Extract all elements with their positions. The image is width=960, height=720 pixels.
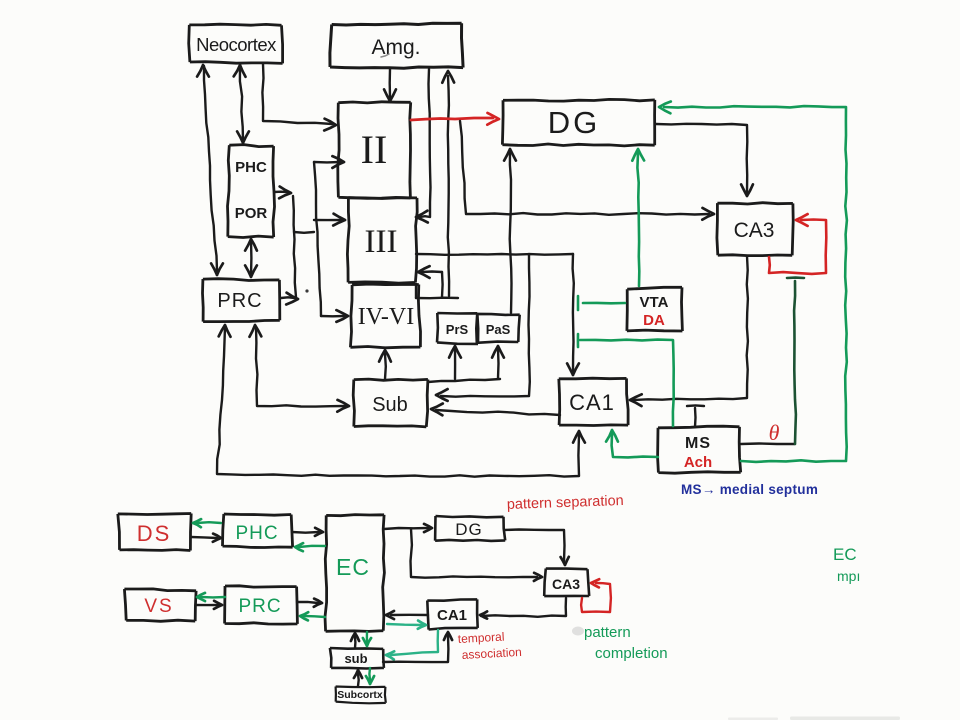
label theta: [769, 420, 780, 445]
svg-text:DG: DG: [455, 520, 483, 539]
label temporal association: [457, 630, 522, 662]
svg-text:III: III: [365, 224, 398, 260]
box EC: [325, 515, 384, 632]
box IV-VI: [350, 284, 420, 348]
wire staircase III-Amg junction: [416, 266, 458, 298]
box MS Ach: [658, 426, 741, 473]
wire POR to column1: [274, 187, 291, 199]
wire EC to CA1 green: [387, 621, 426, 629]
wire column2 to II: [314, 156, 344, 168]
tick near Neocortex: [381, 54, 389, 57]
box DS: [118, 514, 191, 551]
svg-text:EC: EC: [336, 554, 370, 580]
wire PRC to column1: [281, 293, 298, 305]
box PHC POR: [228, 145, 275, 238]
wire Neocortex to II: [262, 64, 336, 131]
wire EC to PHC green: [295, 543, 325, 551]
wire Amg to III: [416, 69, 431, 223]
svg-text:DA: DA: [643, 312, 665, 329]
wire PRC to VS green: [197, 593, 225, 601]
svg-text:POR: POR: [235, 205, 268, 222]
wire y254 to CA1: [567, 254, 579, 375]
svg-text:sub: sub: [344, 651, 367, 666]
wire Neocortex-PHC bidirectional: [234, 65, 249, 143]
svg-text:temporal: temporal: [457, 630, 504, 646]
wire POR-PRC bidirectional: [245, 239, 257, 277]
wire CA1 to Sub green: [386, 630, 438, 660]
svg-text:Amg.: Amg.: [371, 36, 420, 59]
wire EC to CA3 bottom: [411, 529, 543, 581]
wire MS to DG theta green: [659, 102, 847, 462]
svg-text:MS→ medial septum: MS→ medial septum: [681, 482, 818, 497]
svg-text:CA1: CA1: [569, 390, 615, 415]
wire Subcortx to Sub black: [354, 670, 362, 686]
wire VTA inhibit green: [578, 296, 625, 310]
wire DG to CA3 bottom: [504, 530, 569, 566]
box PRC: [203, 279, 280, 322]
svg-text:CA3: CA3: [734, 219, 775, 242]
svg-text:VTA: VTA: [640, 294, 669, 311]
box PRC bottom: [225, 586, 298, 624]
svg-text:IV-VI: IV-VI: [358, 304, 414, 330]
wire Sub to PrS PaS: [428, 346, 504, 382]
wire green to MS: [578, 334, 674, 426]
box VTA DA: [627, 287, 683, 331]
box Neocortex: [189, 24, 283, 63]
wire II to CA3: [460, 121, 714, 220]
wire Sub to IV-VI: [379, 350, 391, 379]
box Sub: [353, 379, 428, 427]
wire MS T-bar black: [687, 405, 704, 427]
svg-text:PRC: PRC: [238, 596, 281, 617]
wire PRC-Sub bidirectional: [250, 325, 350, 412]
svg-text:PrS: PrS: [446, 322, 469, 337]
box PHC bottom: [223, 514, 293, 548]
wire VTA to DG green: [632, 149, 644, 286]
label MS medial septum: [681, 482, 818, 497]
wire DG to CA3: [656, 124, 753, 196]
box III: [347, 198, 417, 283]
wire column2 to III: [314, 214, 345, 226]
wire VS to PRC black: [196, 601, 222, 609]
svg-text:CA1: CA1: [437, 607, 467, 624]
box PaS: [476, 314, 519, 343]
box Sub bottom: [330, 648, 384, 669]
box DG: [502, 99, 654, 145]
wire column2 to IV-VI: [321, 310, 348, 322]
wire PRC-CA1 long loop: [217, 325, 585, 477]
svg-text:EC: EC: [833, 545, 857, 564]
wire CA1 to Sub: [431, 404, 560, 416]
wire column1 vertical: [293, 196, 296, 297]
wire Neocortex-PRC bidirectional: [197, 65, 223, 275]
smudge bottom edge: [728, 717, 900, 720]
svg-text:CA3: CA3: [552, 576, 580, 592]
svg-text:DG: DG: [548, 105, 601, 140]
svg-text:MS: MS: [685, 435, 711, 452]
svg-text:PRC: PRC: [217, 290, 262, 312]
svg-text:pattern: pattern: [584, 624, 631, 641]
wire EC to DG bottom: [384, 524, 432, 532]
wire PHC to EC black: [292, 528, 323, 536]
wire branch to Sub: [436, 254, 530, 401]
label EC imp right: [833, 545, 860, 584]
svg-text:Sub: Sub: [372, 394, 408, 416]
wire MS theta inhibit: [741, 278, 804, 444]
svg-text:Neocortex: Neocortex: [196, 34, 277, 55]
box Subcortx: [336, 687, 386, 704]
svg-text:PHC: PHC: [235, 159, 267, 176]
svg-text:II: II: [361, 127, 388, 172]
wire PHC to DS green: [193, 519, 221, 527]
wire red II to DG: [411, 113, 499, 125]
svg-text:mpı: mpı: [837, 568, 860, 584]
box PrS: [437, 313, 478, 344]
svg-text:VS: VS: [144, 596, 173, 617]
wire column connector: [294, 231, 314, 234]
wire DS to PHC black: [191, 534, 221, 542]
svg-text:completion: completion: [595, 645, 668, 662]
box II: [338, 102, 411, 199]
wire Sub to CA1 black: [383, 632, 452, 662]
wire CA3 red recurrent loop: [769, 214, 826, 274]
wire Amg to II: [384, 69, 396, 101]
label pattern completion: [584, 624, 668, 662]
wire CA3 to CA1: [630, 256, 748, 406]
svg-text:Subcortx: Subcortx: [337, 689, 383, 701]
box Amg: [330, 23, 463, 68]
wire MS to CA1 green: [606, 430, 658, 457]
box CA3 bottom: [544, 569, 589, 597]
wire Sub to EC black: [351, 633, 359, 648]
box VS: [124, 589, 196, 621]
svg-text:Ach: Ach: [684, 454, 712, 471]
box CA1: [559, 378, 628, 425]
svg-text:DS: DS: [137, 521, 172, 546]
wire PRC to EC black: [297, 599, 322, 607]
wire EC to PRC green: [300, 612, 325, 620]
wire column2 vertical: [314, 162, 321, 316]
wire CA1 to EC: [386, 611, 428, 619]
wire PaS to DG: [504, 149, 516, 313]
svg-text:PHC: PHC: [235, 523, 278, 544]
label pattern separation: [507, 493, 624, 513]
box DG bottom: [435, 516, 505, 541]
wire to Amg up: [442, 71, 454, 296]
wire Sub to Subcortx green: [366, 668, 374, 684]
dot near PRC arrow: [305, 289, 308, 292]
svg-text:PaS: PaS: [486, 322, 511, 337]
wire CA3 red loop bottom: [581, 579, 611, 612]
wire EC to Sub green: [363, 632, 371, 646]
box CA1 bottom: [427, 599, 477, 629]
svg-text:θ: θ: [769, 420, 780, 445]
wire CA3 to CA1 bottom: [480, 598, 566, 619]
smudge before pattern: [572, 627, 584, 636]
wire horizontal y254: [416, 253, 573, 256]
box CA3: [717, 203, 793, 256]
